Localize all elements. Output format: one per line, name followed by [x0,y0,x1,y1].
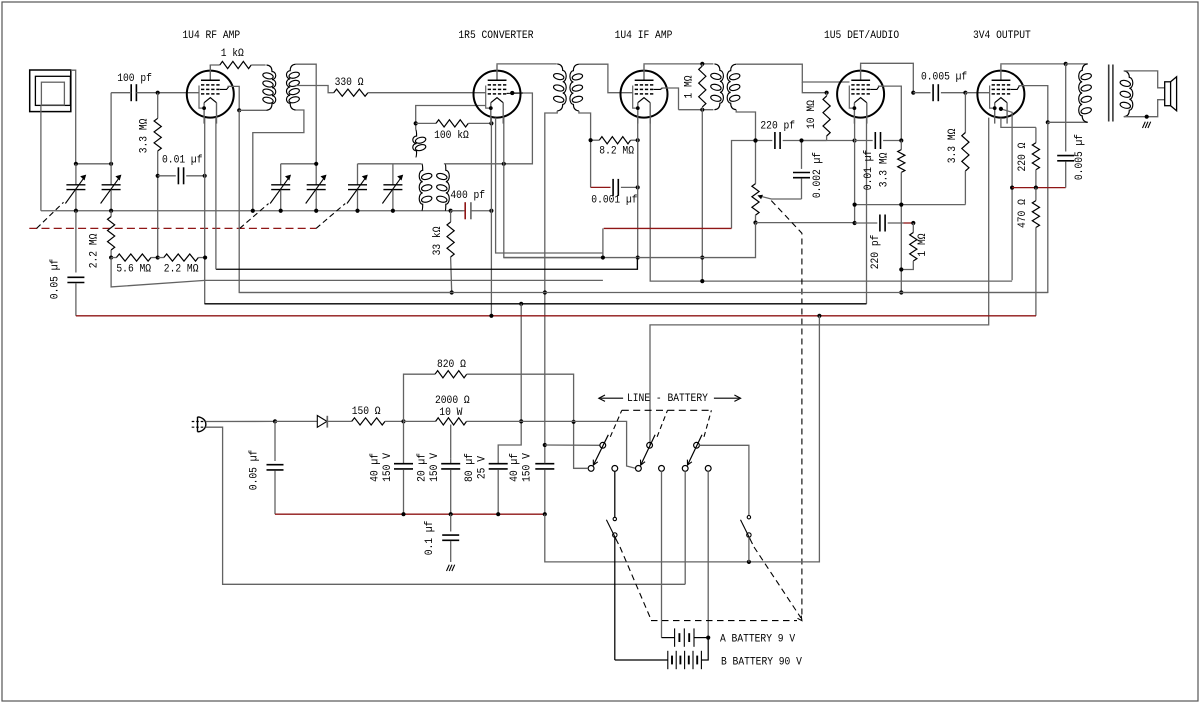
svg-text:8.2 MΩ: 8.2 MΩ [599,146,634,158]
wire det line right [827,140,855,142]
wire det return line [855,204,966,206]
wire 3.3M bottom [157,151,159,258]
wire toggle right down [748,537,750,562]
switch arm 1 [593,435,608,465]
wire lower6 down [707,471,709,637]
transformer T-out secondary [1124,71,1133,117]
wire 2000 out [467,421,636,468]
loop antenna [30,70,71,112]
svg-text:LINE - BATTERY: LINE - BATTERY [627,393,708,405]
transformer T-out primary [1079,64,1088,122]
svg-text:1 kΩ: 1 kΩ [221,48,244,60]
svg-text:1R5 CONVERTER: 1R5 CONVERTER [458,30,533,42]
node bus C1a [74,209,78,213]
diode rectifier [317,416,327,428]
wire V5 cathode diag [1001,109,1012,280]
wire osc vcap top link [358,163,422,165]
wire filament bus y304 [205,303,867,305]
transformer T1 secondary [286,64,295,110]
wire speaker top [1124,71,1165,88]
wire V3 fil lead b [650,118,1012,282]
wire cap4 bottom [544,469,546,514]
dashed toggle left link [620,547,651,620]
node bus C2a [279,209,283,213]
resistor 1 k&#937; [220,61,251,68]
node 33k bottom B+ bus [450,290,454,294]
variable capacitor C3a [357,164,359,185]
electrolytic 40uf b [535,463,554,465]
wire V2 grid bus column [490,118,492,316]
node bus C1b [109,209,113,213]
red det filament wire [604,227,732,229]
node feed B raw junction [519,419,523,423]
node psu gnd b [449,512,453,516]
svg-text:400 pf: 400 pf [450,190,485,202]
wire IF2 sec top to V4 [736,64,849,82]
tube 3V4 OUTPUT V5 [977,71,1024,118]
node V3 fil a [636,255,640,259]
node V1 screen/T1 bottom [237,108,241,112]
wire 100pf to grid [136,92,199,94]
svg-text:2.2 MΩ: 2.2 MΩ [164,264,199,276]
svg-text:0.05 µf: 0.05 µf [50,259,62,300]
svg-text:220 pf: 220 pf [870,235,882,270]
wire 330 to V2 grid [368,92,486,94]
oscillator tickler coil L1 [413,130,417,158]
wire C2 top link [281,163,317,165]
dashed gang bottom [651,620,797,622]
resistor 5.6 M&#937; [111,257,116,259]
transformer IF1 secondary [570,64,579,111]
wire toggle left down [614,537,616,660]
capacitor 220 pf af [855,222,878,224]
resistor 220 &#937; [1035,127,1037,142]
speaker [1165,82,1171,106]
svg-text:25 V: 25 V [476,456,488,479]
wire IF1 sec top to V3 [579,64,633,93]
red filament bus y316 [76,315,1036,317]
dashed switch gang bar [622,409,712,411]
node divider mid [156,255,160,259]
svg-text:2000 Ω: 2000 Ω [435,395,470,407]
node IF1 B+ bus [543,290,547,294]
node V5 cathode pin [999,107,1003,111]
wire 1k to T1 [251,64,265,66]
node red bus 819 [817,314,821,318]
wire coupling to V5 grid [965,92,989,94]
node psu gnd d [543,512,547,516]
svg-text:0.01 µf: 0.01 µf [863,150,875,191]
wire V3 plate line [644,63,713,66]
switch upper contact U3 [694,442,700,448]
svg-text:3.3 MΩ: 3.3 MΩ [139,118,151,153]
node 820/Bplus [572,420,576,424]
switch upper contact U1 [600,442,606,448]
wire B+ bus y292 [239,292,1048,294]
node det line pot [753,138,757,142]
wire plug bottom lead [206,427,686,584]
switch lower contact L5 [682,466,688,472]
switch lower contact L3 [636,466,642,472]
resistor 820 &#937; [435,371,467,378]
tube 1U4 IF AMP V3 [621,71,668,118]
node L2 bottom bus [449,209,453,213]
wire plate to T-out [1066,63,1088,65]
svg-text:0.005 µf: 0.005 µf [921,72,967,84]
switch upper contact U2 [647,442,653,448]
wire B+ to upper contact1 [545,444,600,446]
wire red col down [602,228,604,257]
svg-text:100 pf: 100 pf [117,73,152,85]
resistor 150 &#937; [352,418,385,425]
svg-text:220 pf: 220 pf [760,121,795,133]
node V3 plate/1M [700,62,704,66]
plug AC [198,417,206,432]
node 8.2M right [636,138,640,142]
node 400pf right [489,209,493,213]
node 0.01uf left [156,174,160,178]
gang arrowhead [798,616,802,621]
node bus C2b [314,209,318,213]
node 3.3M det B+ bus [899,290,903,294]
wire tuning bus right of 400pf [471,210,492,212]
wire V2 fil lead b [504,118,603,258]
svg-text:3.3 MΩ: 3.3 MΩ [947,128,959,163]
tube 1U4 RF AMP V1 [187,71,234,118]
node osc grid dot [510,91,514,95]
potentiometer volume 1M [755,141,757,184]
wire V4 plate line [861,63,914,92]
capacitor 400 pf [451,210,463,212]
svg-text:150 V: 150 V [429,453,441,482]
ground speaker [1143,122,1146,128]
node pot bottom [753,221,757,225]
wire V5 fil pin [1001,118,1036,128]
wire feed down to 80uf [498,304,521,463]
wire IF2 primary bottom [679,109,714,111]
switch arm 2 [641,435,655,465]
toggle switch left lower [613,533,617,537]
wire V1 screen exit [228,86,240,110]
wire V4 diode exit [878,86,901,140]
node det return a [853,203,857,207]
wire 100pf input column [110,93,112,164]
wire 3.3M B down [964,203,966,206]
node 0.001 right [636,185,640,189]
wire lower1 feed [574,467,589,469]
node y304 feed [519,302,523,306]
switch lower contact L4 [659,466,665,472]
node tickler/100k [414,121,418,125]
svg-text:1 MΩ: 1 MΩ [917,233,929,256]
electrolytic 20uf [450,459,452,464]
dashed gang link to C2a [240,204,269,229]
dashed link pole2 [657,410,667,437]
wire antenna lead left [40,105,42,210]
node 0.002 top [799,138,803,142]
wire node to 2000 [404,420,436,422]
wire V1 fil lead a [204,118,206,304]
wire upper3 to toggle [699,445,749,515]
svg-text:820 Ω: 820 Ω [437,359,466,371]
tube 1U5 DET/AUDIO V4 [837,71,884,118]
node T1 sec bottom bus [251,209,255,213]
resistor 8.2 M&#937; [591,139,600,141]
resistor 3.3 M&#937; V5 grid [964,93,966,133]
node 0.005 right [963,91,967,95]
capacitor 0.005 &#181;f coupling [913,92,930,94]
node V4 grid cap junction [853,138,857,142]
node antenna/C1 [74,162,78,166]
svg-text:5.6 MΩ: 5.6 MΩ [116,264,151,276]
svg-text:3V4 OUTPUT: 3V4 OUTPUT [973,30,1031,42]
wire filament bus y269 [216,258,638,270]
wire tickler top [416,106,486,130]
node toggle B- [747,560,751,564]
wire 220pf det left [732,141,773,229]
resistor 33 k&#937; [450,211,452,222]
svg-text:10 MΩ: 10 MΩ [806,100,818,129]
node 1M af bottom [899,267,903,271]
wire screen col down [901,122,1048,292]
dashed gang link to C3a [316,204,345,229]
capacitor 0.001 &#181;f [591,186,611,188]
wire AVC slant [111,258,603,287]
svg-text:1U4 RF AMP: 1U4 RF AMP [182,30,240,42]
transformer IF2 primary [714,64,723,110]
wire 1M IF2 col down [701,110,703,281]
resistor 10 M&#937; [826,93,828,96]
svg-text:80 µf: 80 µf [464,453,476,482]
wire T1 sec to 330 [296,86,334,93]
wire diode to 150 [327,420,351,422]
oscillator coil L2 right [445,164,449,211]
svg-text:0.002 µf: 0.002 µf [812,152,824,198]
svg-text:A BATTERY 9 V: A BATTERY 9 V [720,634,795,646]
wire V2 fil lead a [496,118,603,253]
wire lower2 down [614,471,616,517]
svg-text:10 W: 10 W [439,407,462,419]
transformer core [1108,65,1110,122]
node osc/cathode tap [502,162,506,166]
node C1a top [109,162,113,166]
toggle left arm [606,520,618,544]
node 0.01uf right [203,174,207,178]
resistor 2000 &#937; tapped [436,418,467,425]
dashed link pole1 [610,410,622,437]
node plate line out [1064,62,1068,66]
variable capacitor C1b [110,164,112,185]
node speaker gnd [1145,115,1149,119]
wire T1 sec bottom [253,110,304,211]
wire pot bottom AVC [504,223,756,258]
node 220/470 junction [1034,186,1038,190]
node pot top [753,138,757,142]
capacitor 0.005 &#181;f output [1065,64,1067,152]
node B+ switch line [543,443,547,447]
wire B+ col to cap4 [544,422,546,463]
node screen/Tout bottom [1046,120,1050,124]
variable capacitor C2a [280,164,282,185]
node bus C3b [391,209,395,213]
wire tuning ground bus [41,210,465,212]
wire 150 to node [385,420,404,422]
wire cathode red wire [1012,187,1036,189]
node psu gnd c [496,512,500,516]
wire V5 plate line [1001,63,1066,66]
node 0.005 left [911,91,915,95]
node divider right [203,255,207,259]
wire T1 sec top [296,64,317,164]
wire plug top lead [206,420,275,422]
svg-text:20 µf: 20 µf [417,453,429,482]
node B raw [401,419,405,423]
node 220pf af right [911,221,915,225]
wire V3 screen exit [661,88,678,110]
wire V5 fil lead left [650,118,989,446]
capacitor 100 pf [130,84,132,101]
wire det line to 0.002 [802,140,827,142]
svg-text:0.05 µf: 0.05 µf [249,450,261,491]
resistor 2.2 M&#937; horizontal [158,257,164,259]
wire 820 right [467,374,589,468]
svg-text:0.1 µf: 0.1 µf [424,521,436,556]
transformer IF2 secondary [727,64,736,110]
svg-text:0.005 µf: 0.005 µf [1074,134,1086,180]
toggle switch right upper [747,516,750,519]
wire det out line [756,222,855,224]
resistor 330 &#937; [334,89,368,96]
capacitor 0.01 &#181;f [158,175,176,177]
variable capacitor C2b [315,164,317,185]
battery A 9V [662,637,675,639]
resistor 2.2 M&#937; vertical [110,211,112,217]
dashed link pole3 [704,410,711,437]
svg-text:1U4 IF AMP: 1U4 IF AMP [615,30,673,42]
red dashed gang line [29,227,316,229]
svg-text:2.2 MΩ: 2.2 MΩ [89,233,101,268]
node 8.2M left [589,138,593,142]
node divider left [109,255,113,259]
wire V4 fil a [854,118,856,223]
wire V1 plate to 1k [210,64,220,66]
node det return b [899,203,903,207]
ground psu [447,565,450,571]
node IF2 prim bottom [700,108,704,112]
wire V1 screen down to B+ bus [239,110,452,292]
resistor 3.3 M&#937; grid [157,93,159,119]
dashed toggle right link [754,547,801,618]
pot wiper arrow [760,196,801,199]
battery B 90V [615,659,668,661]
electrolytic 80uf [489,463,508,465]
resistor 3.3 M&#937; det [900,141,902,150]
wire lower5 down [684,471,686,584]
resistor 470 &#937; [1035,188,1037,201]
node rectifier input [273,419,277,423]
node A battery minus [706,636,710,640]
arrow left [601,397,624,399]
svg-text:150 Ω: 150 Ω [352,406,381,418]
svg-text:220 Ω: 220 Ω [1017,142,1029,171]
transformer IF1 primary [557,64,566,111]
node grid junction 1U4 [156,91,160,95]
tube 1R5 CONVERTER V2 [474,71,521,118]
wire antenna lead right [71,70,76,164]
node cathode red junction [1010,186,1014,190]
node 10M top [825,91,829,95]
svg-text:0.001 µf: 0.001 µf [591,195,637,207]
node 1M col fil [700,279,704,283]
svg-text:470 Ω: 470 Ω [1017,199,1029,228]
wire V3 fil lead a [637,118,639,258]
electrolytic 40uf a [403,421,405,463]
wire vcap top link C1 [76,163,111,165]
svg-text:100 kΩ: 100 kΩ [434,130,469,142]
svg-text:1 MΩ: 1 MΩ [684,75,696,98]
node bus C3a [355,209,359,213]
wire 220pf det right [783,140,827,142]
wire osc grid line [444,93,533,164]
capacitor 0.01 &#181;f det [855,140,873,142]
wire Tout bottom [1048,121,1088,123]
switch arm 3 [688,435,703,465]
wire IF1 sec bottom AVC [579,111,591,187]
node red bus 492 [489,314,493,318]
switch lower contact L2 [612,466,618,472]
switch lower contact L1 [588,466,594,472]
capacitor 0.05 &#181;f AVC [75,211,77,273]
wire V2 plate line [497,63,557,66]
toggle switch left upper [613,517,616,520]
wire switch B- riser [749,316,820,562]
toggle switch right lower [747,533,751,537]
variable capacitor C1a [75,164,77,185]
node 1M col AVC [700,255,704,259]
variable capacitor C3b [392,164,394,185]
wire 8.2M right down [637,140,639,187]
node 0.01 det right [899,138,903,142]
capacitor 0.1 &#181;f [450,514,452,531]
wire B- to toggle [545,514,749,562]
node avc 603 [601,255,605,259]
svg-text:40 µf: 40 µf [509,453,521,482]
red ground bus PSU [275,513,545,515]
svg-text:0.01 µf: 0.01 µf [162,155,203,167]
node psu gnd a [401,512,405,516]
resistor 1 M&#937; af [912,223,914,233]
dashed gang link to C1a [37,202,64,228]
svg-text:330 Ω: 330 Ω [335,77,364,89]
svg-text:150 V: 150 V [382,453,394,482]
svg-text:3.3 MΩ: 3.3 MΩ [879,152,891,187]
wire IF2 sec bottom det [736,110,755,141]
svg-text:150 V: 150 V [522,453,534,482]
node V4 fil a 220pf [853,221,857,225]
wire lower4 down [661,471,663,637]
wire V5 screen exit [1019,86,1048,123]
oscillator coil L2 left [419,164,422,211]
svg-text:33 kΩ: 33 kΩ [432,226,444,255]
resistor 1 M&#937; IF2 [701,64,703,66]
switch lower contact L6 [705,466,711,472]
wire V4 grid 10M tap [802,82,826,93]
wire V4 fil b [866,118,868,304]
wire 100pf left [111,92,131,94]
capacitor 220 pf det [774,132,776,149]
toggle right arm [741,520,753,544]
arrow right [714,397,739,399]
